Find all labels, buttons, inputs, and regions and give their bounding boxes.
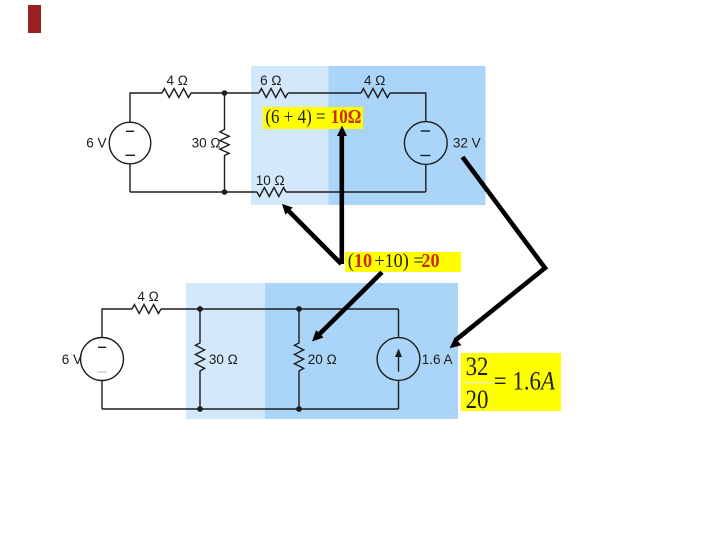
resistor R6 4ohm — [132, 305, 161, 314]
resistor R2 30ohm vertical — [220, 93, 229, 192]
wire top right — [390, 93, 426, 122]
wire left lower — [129, 164, 131, 192]
bent arrow from 32V to current source — [450, 157, 545, 348]
V2 minus top — [421, 130, 430, 132]
svg-text:20 Ω: 20 Ω — [308, 352, 337, 367]
node D (top of R8) — [296, 306, 302, 312]
yellow note (6+4)=10 ohm — [263, 106, 363, 129]
wire bottom right — [286, 191, 426, 193]
svg-text:= 1.6A: = 1.6A — [494, 367, 556, 396]
svg-text:6 V: 6 V — [86, 136, 106, 151]
I1 arrow shaft — [398, 355, 400, 372]
svg-text:30 Ω: 30 Ω — [192, 136, 221, 151]
arrow up to 10ohm note — [337, 126, 347, 265]
yellow note (10+10)=20 — [345, 250, 461, 272]
node B (bottom of R2) — [222, 189, 228, 195]
node F (bottom of R8) — [296, 406, 302, 412]
highlight panel (top, light blue) — [251, 66, 329, 205]
svg-text:(10+10) =20: (10+10) =20 — [348, 250, 440, 272]
node A (top of R2) — [222, 90, 228, 96]
resistor R1 4ohm (top-left) — [162, 89, 191, 98]
wire top mid2 — [288, 92, 361, 94]
current source I1 circle — [377, 338, 420, 381]
svg-text:6 V: 6 V — [62, 352, 82, 367]
node C (top of R7) — [197, 306, 203, 312]
V1 minus bottom — [126, 154, 136, 156]
wire top left (bottom circuit) — [102, 309, 132, 338]
resistor R4 4ohm (top-right) — [361, 89, 390, 98]
I1 arrow head — [395, 349, 402, 358]
resistor R7 30ohm vertical — [195, 309, 204, 409]
resistor R5 10ohm — [257, 188, 286, 197]
svg-text:32: 32 — [466, 353, 489, 382]
voltage source V3 6V circle — [81, 338, 124, 381]
svg-text:20: 20 — [466, 386, 489, 415]
wire bottom (bottom circuit) — [102, 408, 399, 410]
wire right lower — [425, 164, 427, 192]
wire top mid1 — [191, 92, 259, 94]
wire right upper (bottom circuit) — [398, 309, 400, 338]
highlight panel (top, medium blue) — [329, 66, 486, 205]
svg-text:32 V: 32 V — [453, 135, 481, 150]
svg-text:6 Ω: 6 Ω — [260, 73, 281, 88]
voltage source V1 6V circle — [109, 122, 151, 164]
V3 minus bottom (faint) — [98, 371, 108, 373]
voltage source V2 32V circle — [404, 122, 447, 165]
wire top (bottom circuit) — [161, 308, 399, 310]
wire bottom left — [130, 191, 257, 193]
resistor R3 6ohm — [259, 89, 288, 98]
yellow note 32/20 = 1.6A — [461, 353, 561, 415]
svg-text:1.6 A: 1.6 A — [422, 352, 453, 367]
highlight panel (bottom, medium blue) — [265, 283, 458, 419]
V1 minus top — [126, 130, 134, 132]
arrow to 20ohm resistor — [312, 272, 382, 341]
svg-text:10 Ω: 10 Ω — [256, 173, 285, 188]
arrow to 10ohm resistor — [282, 204, 341, 264]
svg-text:4 Ω: 4 Ω — [167, 73, 188, 88]
svg-text:4 Ω: 4 Ω — [137, 289, 158, 304]
V3 minus top — [98, 346, 106, 348]
V2 minus bottom — [420, 155, 430, 157]
svg-text:4 Ω: 4 Ω — [364, 73, 385, 88]
resistor R8 20ohm vertical — [294, 309, 303, 409]
wire left lower (bottom circuit) — [101, 381, 103, 410]
wire top left — [130, 93, 162, 122]
svg-text:30 Ω: 30 Ω — [209, 352, 238, 367]
highlight panel (bottom, light blue) — [186, 283, 265, 419]
node E (bottom of R7) — [197, 406, 203, 412]
svg-text:(6 + 4) = 10Ω: (6 + 4) = 10Ω — [265, 106, 361, 129]
decorative red corner bar — [28, 5, 41, 33]
wire right lower (bottom circuit) — [398, 380, 400, 409]
